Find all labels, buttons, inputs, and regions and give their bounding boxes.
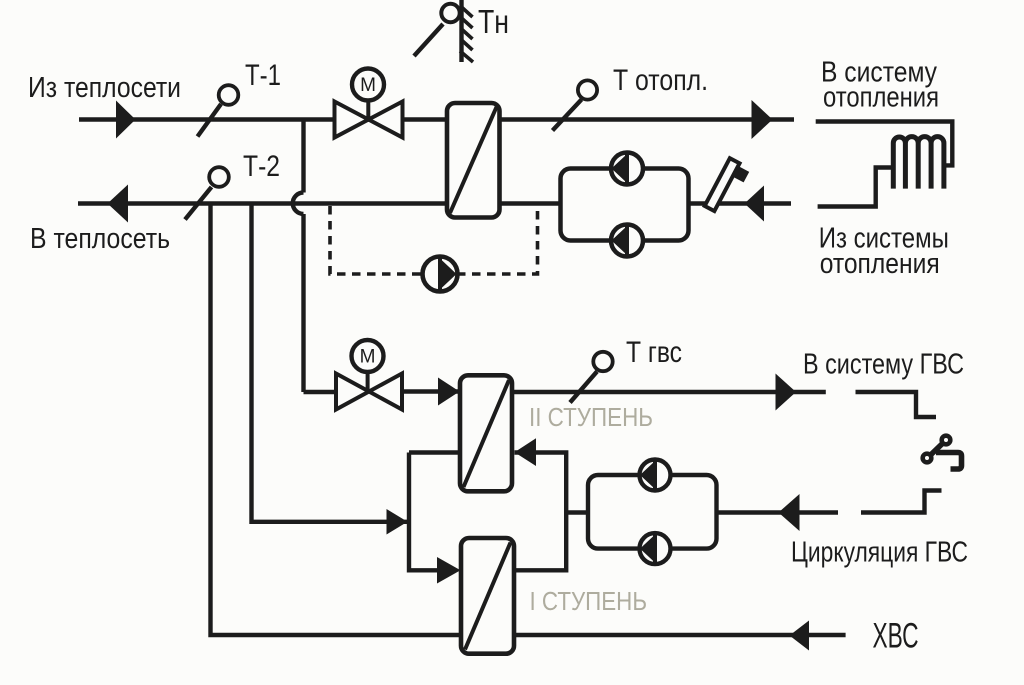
svg-text:М: М: [360, 75, 376, 96]
arrow: to GVS system: [776, 374, 797, 411]
svg-text:В систему ГВС: В систему ГВС: [803, 349, 964, 381]
sensor Т гвс: [570, 352, 613, 403]
svg-text:Т гвс: Т гвс: [626, 336, 682, 369]
pipe bracket: GVS system side (circulation): [861, 491, 942, 513]
sensor Тн (outdoor temp on wall): [414, 0, 473, 62]
svg-text:Циркуляция ГВС: Циркуляция ГВС: [791, 537, 968, 569]
svg-text:I СТУПЕНЬ: I СТУПЕНЬ: [530, 586, 648, 616]
sensor T-2 (thermometer on return): [185, 167, 229, 219]
svg-text:ХВС: ХВС: [873, 617, 919, 656]
arrow: flow into system (supply): [116, 101, 136, 139]
arrow: into stage II exchanger: [438, 378, 460, 406]
svg-text:Т отопл.: Т отопл.: [613, 64, 708, 97]
arrow: cold water inlet ХВС: [790, 621, 810, 651]
pump group: GVS circulation (two pumps in bypass): [588, 460, 717, 565]
tap (water draw-off): [923, 436, 962, 469]
sensor Т отопл.: [553, 80, 598, 130]
svg-text:Т-2: Т-2: [243, 150, 280, 183]
wire: supply main from heat network y=119.5: [79, 117, 794, 121]
pump group: heating return (two pumps in bypass): [561, 153, 689, 257]
svg-text:В теплосеть: В теплосеть: [30, 223, 170, 255]
strainer (dirt trap) on return: [705, 158, 751, 217]
svg-text:II СТУПЕНЬ: II СТУПЕНЬ: [529, 402, 653, 432]
svg-text:Т-1: Т-1: [245, 59, 281, 92]
wire: riser to GVS valve with hop over return: [293, 120, 304, 393]
heat exchanger: heating circuit: [447, 103, 500, 218]
wire: riser B (return from stage II loop): [252, 204, 408, 522]
radiator (heating system load): [816, 122, 953, 207]
wire: GVS supply from stage II to system: [512, 390, 826, 394]
arrow: circulation into pumps: [779, 494, 800, 531]
arrow: into stage I exchanger: [437, 557, 461, 584]
sensor T-1 (thermometer on supply): [198, 85, 239, 136]
arrow: flow out of system (return): [108, 185, 129, 223]
pipe bracket: GVS system side (supply): [856, 392, 937, 417]
svg-text:отопления: отопления: [820, 248, 940, 280]
interstage loop left side: [409, 453, 460, 571]
heat exchanger: GVS stage I: [461, 538, 514, 654]
arrow: into stage II right port: [515, 438, 537, 466]
arrow: to heating system: [752, 100, 773, 139]
svg-text:М: М: [360, 347, 376, 368]
svg-text:Из теплосети: Из теплосети: [28, 72, 181, 104]
interstage loop right side: [514, 453, 566, 571]
wire: circulation from GVS system: [717, 510, 839, 514]
arrow: from heating system (return): [745, 186, 765, 222]
arrow: riser B into interstage loop: [387, 509, 408, 535]
svg-text:Тн: Тн: [478, 3, 509, 40]
wire: riser A (return from stage I): [211, 204, 846, 636]
heat exchanger: GVS stage II: [460, 375, 512, 491]
svg-text:отопления: отопления: [823, 81, 939, 113]
valve with actuator M (heating control valve): [335, 69, 403, 138]
wire: circulation line to pump group: [566, 510, 588, 514]
valve with actuator M (GVS control valve): [304, 340, 460, 410]
wire: return main to heat network y=203.5: [78, 201, 791, 205]
dashed control link with standby pump: [330, 206, 538, 292]
